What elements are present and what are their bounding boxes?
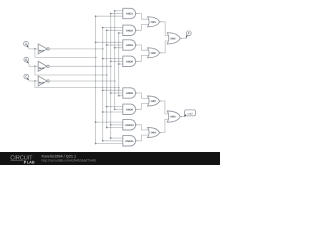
node B' inverted corner [110,65,112,67]
and-gate AND8 [123,88,138,98]
svg-text:AND10: AND10 [125,124,134,127]
wire AND10 output to OR4 [138,125,149,130]
svg-text:INV2: INV2 [39,67,45,70]
wire OR6 output to node out2 [182,116,184,118]
svg-text:INV3: INV3 [39,82,45,85]
wire bus vertical 5 [114,11,116,110]
node F output terminal [186,31,191,38]
svg-text:OR2: OR2 [151,52,157,55]
or-gate OR1 [148,17,162,27]
or-gate OR6 [167,111,182,122]
footer bar [0,152,220,165]
svg-text:INV1: INV1 [39,49,45,52]
svg-text:AND9: AND9 [126,108,134,111]
wire B branch down [34,66,36,75]
node out2 output tag [184,110,195,117]
or-gate OR4 [148,128,162,138]
and-gate AND9 [123,104,138,114]
url text [42,159,96,163]
inverter INV2 [38,61,49,71]
node B input terminal [24,57,29,63]
svg-text:LAB: LAB [27,160,35,164]
wire C' inverted row [49,80,114,82]
node A branch junction [34,48,36,50]
wire AND8 output to OR3 [138,93,149,98]
node A input terminal [24,41,29,47]
wire AND2 output to OR1 [138,24,149,30]
wire AND9 output to OR3 [138,104,149,110]
wire A branch down [34,49,36,58]
svg-text:out2: out2 [188,112,194,115]
wire A' inverted row [49,48,102,50]
node C input terminal [24,74,29,80]
svg-text:OR1: OR1 [151,21,157,24]
svg-text:AND1: AND1 [126,13,134,16]
and-gate AND4 [123,40,138,50]
and-gate AND11 [123,136,138,146]
and-gate AND1 [123,8,138,18]
or-gate OR2 [148,48,162,58]
wire input stubs of AND10 [95,121,123,128]
wire input stubs of AND11 [95,137,123,144]
wire input stubs of AND6 [102,58,123,65]
wire B direct row [35,74,107,76]
wire B' inverted row [49,65,110,67]
wire C direct row [35,87,119,89]
svg-text:AND11: AND11 [125,140,134,143]
wire OR4 output to OR6 [162,119,169,132]
or-gate OR3 [148,96,162,106]
wire OR2 output to OR5 [162,41,169,53]
svg-text:AND6: AND6 [126,60,134,63]
inverter INV3 [38,76,49,86]
wire A terminal to inverter input [28,47,38,49]
wire OR1 output to OR5 [162,22,169,36]
wire bus vertical 2 [102,28,104,141]
node A' inverted corner [102,48,104,50]
wire input stubs of AND2 [102,27,123,34]
node C' inverted corner [114,80,116,82]
svg-text:OR3: OR3 [151,100,157,103]
svg-text:OR6: OR6 [170,116,176,119]
inverter INV1 [38,44,49,54]
wire OR3 output to OR6 [162,101,169,114]
wire input stubs of AND9 [102,106,123,113]
node B branch junction [34,65,36,67]
wire input stubs of AND1 [95,10,123,17]
svg-text:http://circuitlab.com/c/b455bs: http://circuitlab.com/c/b455bsd754dt [42,159,96,163]
wire C terminal to inverter input [29,80,39,81]
svg-text:OR4: OR4 [151,132,157,135]
CircuitLab logo [10,155,35,165]
and-gate AND6 [123,56,138,66]
svg-text:AND8: AND8 [126,92,134,95]
wire AND6 output to OR2 [138,55,149,61]
wire B terminal to inverter input [29,63,39,67]
svg-text:AND4: AND4 [126,44,134,47]
svg-text:F: F [188,32,190,36]
wire OR5 output to node F [182,37,187,39]
node C direct corner [118,87,120,89]
or-gate OR5 [167,33,182,44]
and-gate AND10 [123,120,138,130]
wire crossing shading [95,13,119,128]
wire AND11 output to OR4 [138,135,149,141]
svg-text:B: B [25,58,27,62]
node A direct corner [95,57,97,59]
svg-text:OR5: OR5 [170,37,176,40]
wire input stubs of AND4 [95,41,123,48]
wire bus vertical 1 [95,16,97,143]
wire AND4 output to OR2 [138,45,149,50]
node B direct corner [106,74,108,76]
svg-text:AND2: AND2 [126,29,134,32]
wire bus vertical 3 [106,30,108,127]
wire A direct row [35,56,96,58]
wire AND1 output to OR1 [138,14,149,20]
wire C branch down [34,81,36,88]
node C branch junction [34,80,36,82]
wire input stubs of AND8 [102,89,123,96]
wire bus vertical 6 [118,33,120,96]
wire bus vertical 4 [110,14,112,139]
title text Katelin1994 / Q21.1 [42,154,77,158]
and-gate AND2 [123,25,138,35]
